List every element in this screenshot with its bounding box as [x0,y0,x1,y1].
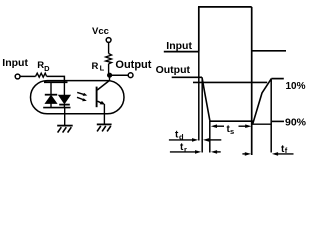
output rising edge [253,79,272,125]
measure ts left arrow [211,124,224,128]
svg-text:Input: Input [166,40,192,52]
svg-text:Output: Output [156,64,191,76]
measure tf left arrow [242,152,251,156]
svg-text:s: s [230,127,234,136]
svg-text:10%: 10% [286,81,306,92]
svg-text:Vcc: Vcc [92,26,109,37]
ground (LED side) [57,126,72,133]
wire input to RD [20,75,35,77]
input pulse rising edge [198,7,200,52]
svg-text:R: R [92,61,99,72]
output high level (right) / 10% lead line [271,78,283,80]
input pulse top [198,6,252,8]
measure tr right arrow [211,150,221,154]
wire D1 to bottom rail [50,103,52,107]
output high level (left) [172,76,202,78]
wire D2 to bottom rail [63,105,65,108]
measure tr left arrow [170,150,201,154]
transistor Q1 emitter lead [98,101,103,103]
svg-text:L: L [100,64,105,73]
transistor Q1 emitter arrowhead [100,101,106,105]
output terminal circle [128,73,133,78]
alignment line at fall start [201,79,203,153]
measure tf right arrow [272,152,294,156]
measure td right arrow [203,138,221,142]
alignment line at rise end [270,79,272,153]
wire emitter to ground [103,104,105,124]
measure line between input off and rise end [252,123,271,125]
svg-text:90%: 90% [285,116,307,128]
measure td left arrow [169,138,198,142]
svg-text:D: D [44,64,50,73]
alignment line at input rising edge [198,52,200,141]
wire rail to diode D1 [50,82,52,94]
LED anode rail (top) [44,81,68,83]
input baseline right [252,50,286,52]
optocoupler package outline [31,81,125,114]
input pulse falling edge (extends down as alignment line) [251,7,253,155]
LED cathode rail (bottom) [43,107,70,109]
diode D1 (triangle up) [45,96,56,104]
diode D2 (cathode bar) [59,104,70,106]
junction dot [107,73,112,78]
ground (transistor side) [97,124,112,131]
transistor Q1 base bar [96,87,98,108]
wire junction to output terminal [112,74,128,76]
diode D2 (triangle down) [59,95,70,103]
Vcc terminal circle [106,38,111,43]
diode D1 (cathode bar) [45,94,57,96]
wire bottom rail to ground [64,108,66,126]
light emission arrow 1 [77,92,87,96]
wire RD to LED branch [47,76,65,82]
wire RL to junction [108,64,110,75]
output low level [210,120,254,122]
input baseline left [164,51,199,53]
input terminal circle [15,74,20,79]
transistor Q1 collector lead [97,81,109,90]
svg-text:r: r [184,145,187,154]
90% lead line [272,120,284,122]
wire junction down to collector [109,75,111,81]
alignment line at fall end [209,121,211,153]
resistor RD [36,73,47,77]
resistor RL [106,54,112,64]
output falling edge [202,77,210,121]
wire rail to diode D2 [63,82,65,95]
light emission arrow 2 [77,97,87,101]
wire Vcc to RL [108,42,110,53]
svg-text:Output: Output [115,59,151,71]
svg-text:Input: Input [2,57,28,69]
measure ts right arrow [239,124,252,128]
10% level line [193,81,267,83]
